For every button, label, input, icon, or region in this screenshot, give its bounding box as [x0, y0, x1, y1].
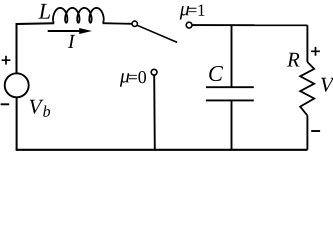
mu=0 terminal (open circle) [151, 69, 157, 75]
label Vb [30, 100, 44, 114]
wire: top-left rail from corner to inductor [17, 23, 55, 73]
wire: top junction down to capacitor [231, 25, 233, 87]
minus sign of source [1, 103, 10, 105]
wire: inductor to switch pole [103, 22, 133, 25]
switch blade [137, 25, 177, 42]
label C [209, 66, 223, 81]
resistor R zigzag [300, 62, 314, 116]
inductor L coil [53, 8, 104, 23]
label L [38, 4, 50, 19]
capacitor C bottom plate [206, 99, 254, 101]
switch pole terminal (open circle) [132, 21, 137, 26]
label I [68, 35, 76, 48]
label mu=0 [120, 73, 129, 87]
wire: capacitor bottom to bottom rail [231, 100, 233, 149]
wire: right rail top [306, 25, 308, 62]
voltage source Vb (circle) [5, 73, 29, 97]
minus sign at R bottom [311, 130, 320, 132]
wire: resistor bottom to bottom rail [306, 116, 308, 150]
label V (output) [321, 78, 333, 92]
capacitor C top plate [206, 86, 254, 88]
label mu=1 [180, 6, 189, 20]
mu=1 terminal (open circle) [186, 22, 192, 28]
plus sign at R top [311, 47, 320, 56]
current arrow I [48, 30, 86, 32]
wire: from source bottom to bottom rail [16, 97, 18, 149]
plus sign of source [2, 56, 11, 65]
wire: bottom rail [16, 149, 308, 151]
label R [287, 53, 300, 67]
wire: mu=1 terminal to top-right corner [192, 24, 307, 26]
wire: mu=0 terminal down to bottom rail [153, 75, 156, 149]
